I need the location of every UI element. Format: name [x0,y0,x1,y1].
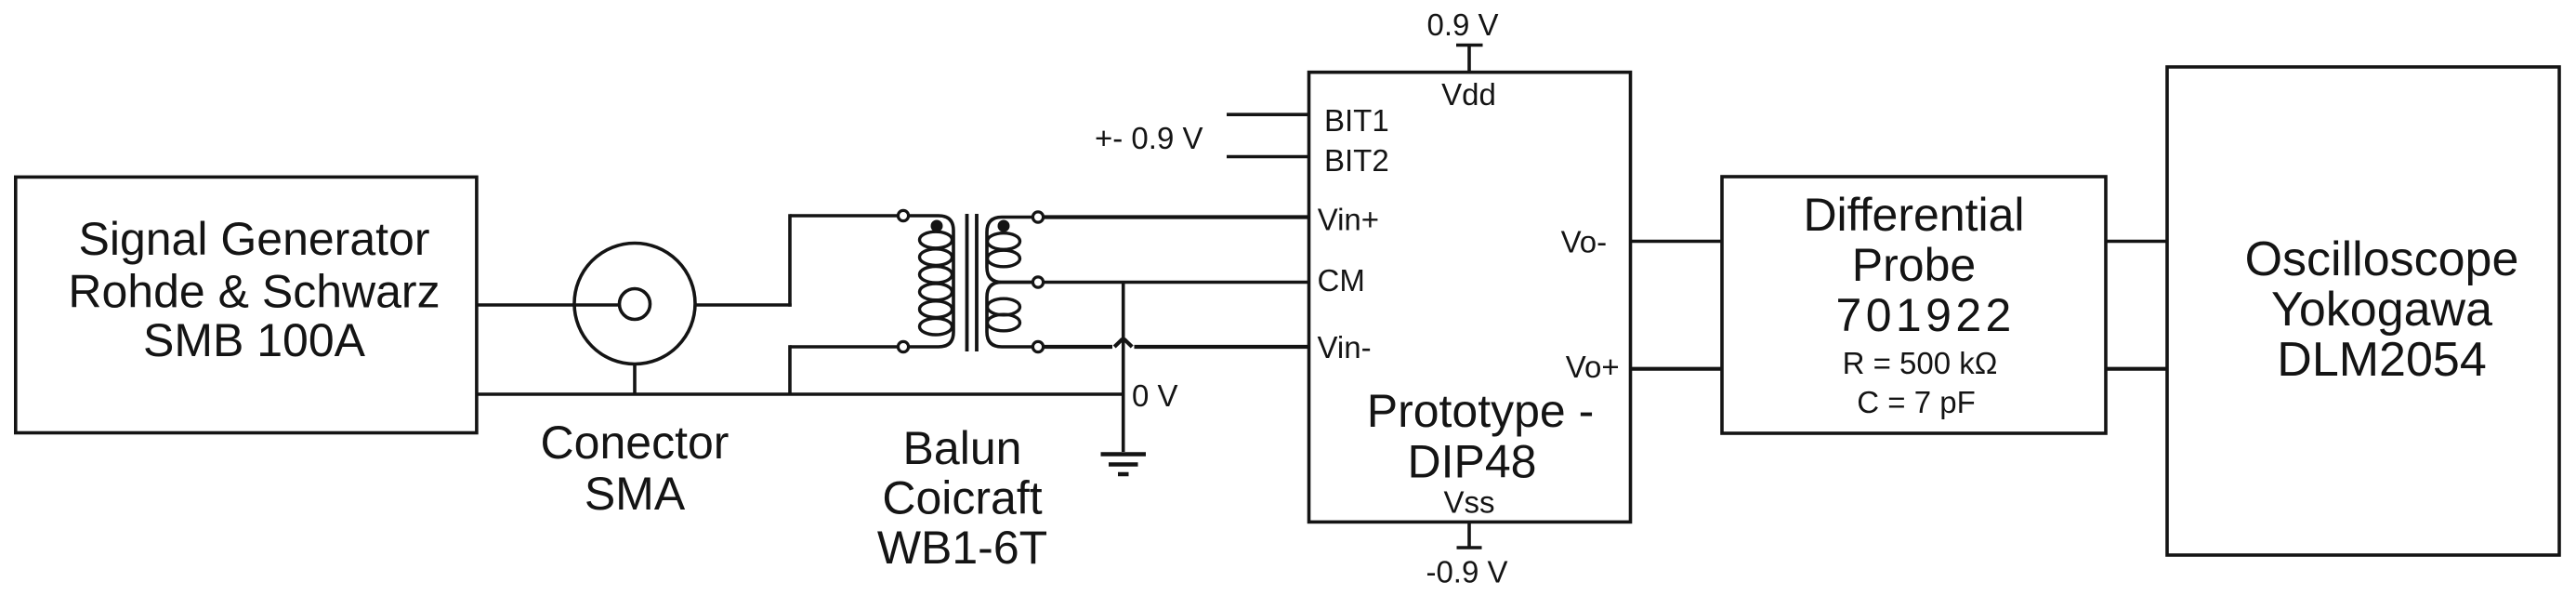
svg-text:Vss: Vss [1443,485,1494,520]
svg-text:-0.9 V: -0.9 V [1426,555,1507,589]
svg-text:Vdd: Vdd [1441,77,1496,112]
svg-text:Balun: Balun [903,422,1022,474]
svg-text:Differential: Differential [1803,189,2024,241]
svg-text:Vo-: Vo- [1561,225,1608,259]
svg-text:Vin+: Vin+ [1318,203,1379,237]
svg-text:DIP48: DIP48 [1408,436,1537,488]
svg-text:BIT2: BIT2 [1324,143,1389,178]
svg-text:Conector: Conector [541,417,729,469]
svg-text:CM: CM [1318,263,1365,298]
svg-text:0 V: 0 V [1132,378,1178,413]
svg-text:Signal Generator: Signal Generator [78,213,429,265]
svg-text:Yokogawa: Yokogawa [2271,283,2492,337]
svg-text:701922: 701922 [1836,289,2016,341]
svg-text:Rohde & Schwarz: Rohde & Schwarz [68,266,440,318]
svg-text:BIT1: BIT1 [1324,103,1389,138]
svg-text:Probe: Probe [1852,239,1976,291]
svg-text:SMB 100A: SMB 100A [143,314,366,366]
svg-text:Coicraft: Coicraft [882,472,1042,524]
svg-text:Oscilloscope: Oscilloscope [2245,232,2519,286]
svg-text:Vin-: Vin- [1318,330,1372,364]
svg-text:Vo+: Vo+ [1566,350,1620,384]
svg-text:SMA: SMA [585,468,686,520]
svg-text:C = 7 pF: C = 7 pF [1857,385,1975,419]
svg-text:Prototype -: Prototype - [1367,385,1595,437]
svg-text:R = 500 kΩ: R = 500 kΩ [1843,346,1998,380]
svg-text:WB1-6T: WB1-6T [877,522,1047,574]
svg-text:DLM2054: DLM2054 [2277,333,2486,387]
svg-text:0.9 V: 0.9 V [1426,7,1498,42]
svg-text:+- 0.9 V: +- 0.9 V [1095,121,1203,155]
